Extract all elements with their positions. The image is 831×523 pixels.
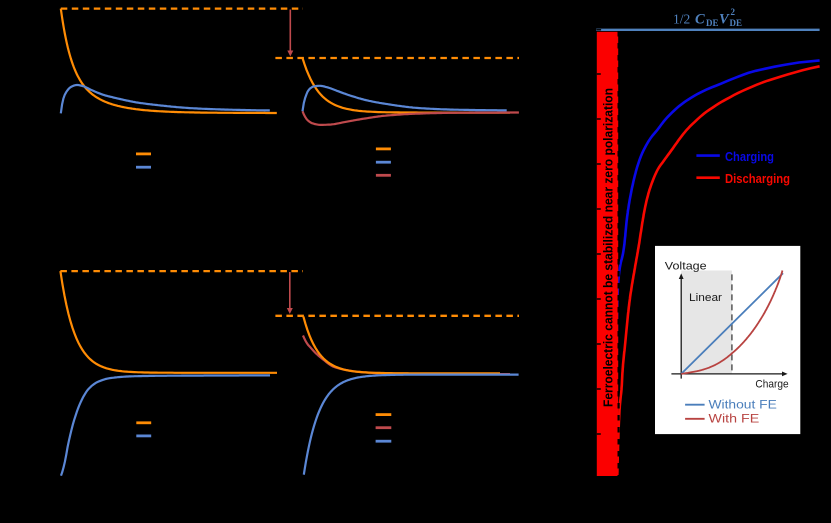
svg-text:Voltage: Voltage: [665, 261, 707, 273]
svg-text:2: 2: [731, 7, 736, 17]
svg-text:C: C: [695, 12, 705, 28]
svg-text:1/2: 1/2: [673, 12, 690, 27]
svg-text:With FE: With FE: [709, 414, 760, 426]
svg-text:V: V: [719, 12, 730, 28]
svg-text:DE: DE: [730, 18, 743, 28]
svg-text:Charge: Charge: [755, 379, 788, 391]
svg-text:Ferroelectric cannot be stabil: Ferroelectric cannot be stabilized near …: [601, 88, 615, 407]
svg-text:DE: DE: [706, 18, 719, 28]
svg-text:Discharging: Discharging: [725, 171, 790, 186]
svg-text:Linear: Linear: [689, 292, 722, 304]
svg-text:Without FE: Without FE: [709, 400, 778, 412]
svg-text:Charging: Charging: [725, 149, 774, 164]
